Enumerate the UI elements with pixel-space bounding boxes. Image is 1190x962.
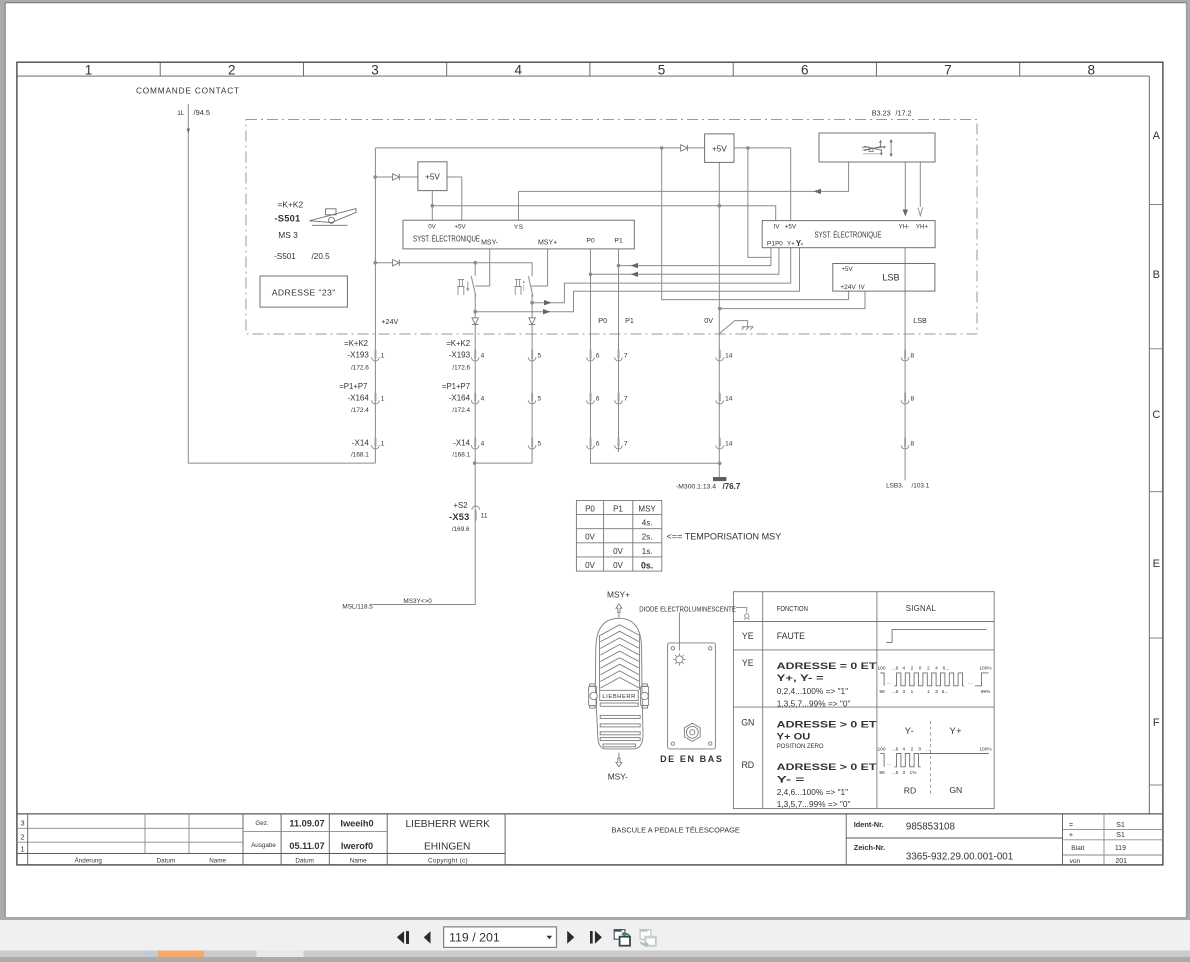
svg-text:1: 1 [381,352,385,359]
svg-text:0V: 0V [704,316,713,325]
svg-text:7: 7 [624,352,628,359]
svg-text:=P1+P7: =P1+P7 [339,382,367,391]
svg-text:100%: 100% [979,666,992,672]
svg-text:Y- =: Y- = [777,774,805,785]
svg-text:C: C [1152,409,1160,421]
svg-text:FAUTE: FAUTE [777,631,805,641]
svg-text:Y+: Y+ [787,240,795,247]
svg-text:+S2: +S2 [454,501,468,510]
svg-text:2: 2 [911,747,914,753]
svg-text:BASCULE A PEDALE TÉLESCOPAGE: BASCULE A PEDALE TÉLESCOPAGE [612,826,740,835]
svg-text:YH-: YH- [899,223,910,230]
svg-text:+5V: +5V [712,144,727,153]
svg-text:1,3,5,7...99% => "0": 1,3,5,7...99% => "0" [777,699,851,709]
svg-text:2: 2 [927,666,930,672]
svg-text:/172.4: /172.4 [452,407,470,414]
svg-text:GN: GN [741,718,754,728]
svg-text:/94.5: /94.5 [194,108,210,117]
svg-text:05.11.07: 05.11.07 [289,841,324,851]
svg-text:A: A [1153,130,1161,142]
svg-text:MS3Y<>0: MS3Y<>0 [403,598,432,605]
svg-text:7: 7 [624,440,628,447]
svg-text:8: 8 [911,352,915,359]
svg-text:Iwerof0: Iwerof0 [341,841,373,851]
svg-text:/169.6: /169.6 [452,526,470,533]
svg-text:7: 7 [944,62,952,77]
svg-text:2: 2 [20,832,24,841]
svg-text:1,3,5,7...99% => "0": 1,3,5,7...99% => "0" [777,799,851,809]
svg-text:=P1+P7: =P1+P7 [442,382,470,391]
svg-text:SYST. ÉLECTRONIQUE: SYST. ÉLECTRONIQUE [413,234,480,244]
svg-text:99: 99 [879,689,885,695]
svg-text:100%: 100% [979,747,992,753]
svg-text:0: 0 [918,747,921,753]
svg-text:3365-932.29.00.001-001: 3365-932.29.00.001-001 [906,852,1013,863]
svg-text:=K+K2: =K+K2 [344,339,368,348]
svg-text:+: + [1069,830,1073,839]
svg-text:B: B [1153,269,1160,281]
svg-text:4: 4 [902,666,905,672]
svg-text:0: 0 [919,666,922,672]
svg-text:P0: P0 [775,240,783,247]
svg-text:Zeich-Nr.: Zeich-Nr. [854,843,886,852]
svg-text:0V: 0V [585,561,595,570]
svg-text:2: 2 [228,62,236,77]
svg-text:2s.: 2s. [642,533,653,542]
svg-text:-S501: -S501 [275,213,301,223]
svg-text:4: 4 [481,440,485,447]
svg-text:3: 3 [902,770,905,776]
svg-text:P1: P1 [625,316,634,325]
svg-text:1%: 1% [910,770,918,776]
svg-text:+5V: +5V [785,224,797,231]
svg-text:IV: IV [774,224,781,231]
svg-text:4: 4 [515,62,523,77]
svg-text:14: 14 [725,395,733,402]
svg-text:-S501: -S501 [274,252,296,261]
svg-text:/20.5: /20.5 [312,252,331,261]
svg-text:6...: 6... [943,666,950,672]
svg-text:DIODE ELECTROLUMINESCENTE: DIODE ELECTROLUMINESCENTE [639,607,736,614]
svg-text:=: = [1069,820,1073,829]
svg-text:/168.1: /168.1 [452,452,470,459]
svg-text:DE EN BAS: DE EN BAS [660,754,723,764]
svg-text:119 / 201: 119 / 201 [449,931,500,945]
svg-text:...5: ...5 [892,689,899,695]
svg-text:ADRESSE > 0 ET: ADRESSE > 0 ET [777,762,877,773]
svg-text:14: 14 [725,352,733,359]
svg-text:0V: 0V [428,224,436,231]
svg-text:...6: ...6 [892,747,899,753]
svg-text:P1: P1 [614,238,623,245]
svg-text:1: 1 [85,62,93,77]
svg-text:Datum: Datum [295,857,314,864]
svg-text:Y-: Y- [796,239,804,248]
svg-text:...: ... [887,762,891,767]
svg-text:3: 3 [902,689,905,695]
svg-text:Y+ OU: Y+ OU [777,731,811,742]
svg-text:+5V: +5V [454,224,466,231]
svg-text:P0: P0 [598,316,607,325]
svg-text:-X14: -X14 [453,439,470,448]
svg-text:/103.1: /103.1 [912,483,930,490]
svg-text:F: F [1153,717,1160,729]
svg-text:LSB3.: LSB3. [886,483,904,490]
svg-text:-X193: -X193 [347,351,369,360]
svg-text:8: 8 [1088,62,1096,77]
svg-text:+24V: +24V [840,284,856,291]
svg-text:4: 4 [481,352,485,359]
svg-text:RD: RD [904,785,916,795]
svg-text:E: E [1153,558,1160,570]
svg-text:5: 5 [538,352,542,359]
svg-text:Iweeih0: Iweeih0 [340,818,373,828]
svg-text:6: 6 [596,395,600,402]
svg-text:MSY+: MSY+ [538,240,557,247]
svg-text:2,4,6...100% => "1": 2,4,6...100% => "1" [777,787,848,797]
svg-text:2: 2 [911,666,914,672]
svg-text:1: 1 [927,689,930,695]
svg-text:0V: 0V [585,533,595,542]
svg-text:3: 3 [20,818,24,827]
svg-text:119: 119 [1115,845,1126,852]
svg-text:...6: ...6 [892,666,899,672]
svg-text:GN: GN [949,785,962,795]
svg-text:B3.23: B3.23 [872,109,891,118]
svg-text:ADRESSE > 0 ET: ADRESSE > 0 ET [777,719,877,730]
svg-text:...: ... [926,748,930,753]
svg-text:1: 1 [381,395,385,402]
svg-text:0V: 0V [613,547,623,556]
svg-text:SYST. ÉLECTRONIQUE: SYST. ÉLECTRONIQUE [815,229,882,239]
svg-text:5...: 5... [942,689,949,695]
svg-text:SIGNAL: SIGNAL [906,604,937,613]
svg-text:3: 3 [371,62,379,77]
svg-text:ADRESSE = 0 ET: ADRESSE = 0 ET [777,661,877,672]
svg-text:LIEBHERR WERK: LIEBHERR WERK [406,819,491,830]
svg-text:...: ... [887,681,891,686]
svg-text:/172.6: /172.6 [351,365,369,372]
svg-text:-X164: -X164 [347,394,369,403]
svg-text:6: 6 [596,440,600,447]
svg-text:P0: P0 [586,238,595,245]
svg-text:0s.: 0s. [641,560,653,570]
svg-text:5: 5 [538,440,542,447]
svg-text:Gez.: Gez. [255,820,269,827]
svg-text:EHINGEN: EHINGEN [424,841,470,852]
svg-text:...5: ...5 [892,770,899,776]
svg-text:P1: P1 [767,240,776,247]
svg-text:8: 8 [911,440,915,447]
svg-text:...: ... [968,681,972,686]
svg-text:<== TEMPORISATION MSY: <== TEMPORISATION MSY [667,532,782,542]
svg-text:MSY-: MSY- [608,771,628,781]
svg-text:7: 7 [624,395,628,402]
svg-text:Copyright (c): Copyright (c) [428,857,468,864]
svg-text:MSY: MSY [638,505,656,514]
svg-text:5: 5 [658,62,666,77]
svg-text:201: 201 [1115,858,1127,865]
svg-text:/172.4: /172.4 [351,407,369,414]
svg-text:Y+, Y- =: Y+, Y- = [777,673,824,684]
svg-text:LSB: LSB [913,316,927,325]
svg-text:-X53: -X53 [449,512,469,522]
svg-text:1s.: 1s. [642,547,653,556]
svg-text:RD: RD [741,760,754,770]
svg-text:99: 99 [879,770,885,776]
svg-text:Name: Name [209,857,226,864]
svg-text:100: 100 [877,666,885,672]
svg-text:LSB: LSB [882,273,899,283]
svg-text:LIEBHERR: LIEBHERR [602,694,635,700]
svg-text:4: 4 [481,395,485,402]
svg-text:0,2,4...100% => "1": 0,2,4...100% => "1" [777,686,848,696]
svg-text:11.09.07: 11.09.07 [289,818,324,828]
svg-text:=K+K2: =K+K2 [446,339,470,348]
svg-text:1: 1 [911,689,914,695]
svg-text:P1: P1 [613,505,623,514]
svg-text:14: 14 [725,440,733,447]
svg-text:100: 100 [877,747,885,753]
svg-text:1: 1 [20,844,24,853]
svg-text:von: von [1070,858,1081,865]
svg-text:-X14: -X14 [352,439,369,448]
svg-text:+5V: +5V [841,266,853,273]
svg-text:8: 8 [911,395,915,402]
svg-text:FONCTION: FONCTION [777,604,808,613]
svg-text:4: 4 [902,747,905,753]
svg-text:Änderung: Änderung [75,856,103,864]
svg-text:3: 3 [935,689,938,695]
svg-text:Name: Name [350,857,367,864]
svg-text:/168.1: /168.1 [351,452,369,459]
svg-text:6: 6 [596,352,600,359]
svg-text:/172.6: /172.6 [452,365,470,372]
svg-text:Y-: Y- [905,726,914,736]
svg-text:=K+K2: =K+K2 [278,199,304,209]
svg-text:1L: 1L [177,110,185,117]
svg-text:S1: S1 [1116,830,1125,839]
svg-text:4s.: 4s. [642,519,653,528]
svg-text:YS: YS [514,224,524,231]
svg-text:ADRESSE "23": ADRESSE "23" [272,287,336,297]
svg-text:P0: P0 [585,505,595,514]
svg-text:0V: 0V [613,561,623,570]
svg-text:MSL/118.5: MSL/118.5 [342,604,373,611]
svg-text:+5V: +5V [425,172,440,181]
svg-text:985853108: 985853108 [906,822,956,833]
svg-text:4: 4 [935,666,938,672]
svg-text:11: 11 [481,512,488,519]
svg-text:/76.7: /76.7 [723,482,741,491]
svg-text:S1: S1 [1116,820,1125,829]
svg-text:99%: 99% [981,689,991,695]
svg-text:1: 1 [381,440,385,447]
svg-text:YH+: YH+ [916,223,929,230]
svg-text:YE: YE [742,631,754,641]
svg-text:Blatt: Blatt [1071,845,1084,852]
svg-text:IV: IV [859,284,866,291]
svg-text:MSY-: MSY- [481,240,499,247]
svg-text:Y+: Y+ [949,726,962,736]
svg-text:/17.2: /17.2 [896,109,912,118]
svg-text:COMMANDE CONTACT: COMMANDE CONTACT [136,85,240,95]
svg-text:POSITION ZERO: POSITION ZERO [777,743,824,750]
svg-text:Ident-Nr.: Ident-Nr. [854,820,884,829]
svg-text:Datum: Datum [157,857,176,864]
svg-text:YE: YE [742,658,754,668]
svg-text:MSY+: MSY+ [607,589,630,599]
svg-text:5: 5 [538,395,542,402]
svg-text:+24V: +24V [381,317,398,326]
svg-text:Ausgabe: Ausgabe [251,842,276,849]
svg-text:6: 6 [801,62,809,77]
svg-text:-X164: -X164 [449,394,471,403]
svg-text:MS 3: MS 3 [278,230,298,240]
svg-text:-M300.1:13.4: -M300.1:13.4 [676,484,716,491]
svg-text:-X193: -X193 [449,351,471,360]
